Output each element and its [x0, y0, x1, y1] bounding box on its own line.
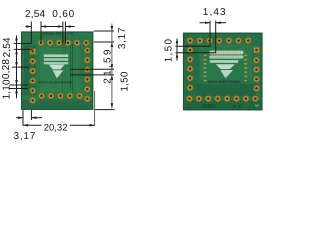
svg-text:2,54: 2,54 [2, 37, 13, 58]
smd footprint bars board A [44, 54, 68, 64]
dimension 20,32 bottom board A dimension line [23, 124, 95, 126]
smd pad columns fine pitch board B [204, 55, 248, 82]
arrowheads 2,54 and 0,60 top board A [26, 25, 70, 28]
logo watermark board A [39, 65, 73, 85]
dimension 21,59 bottom extension line board A [95, 109, 115, 111]
svg-text:ROTH ELEKTRONIK: ROTH ELEKTRONIK [208, 80, 242, 84]
svg-text:ROHS: ROHS [203, 103, 216, 108]
dimension 0,60 top board A extension lines [63, 22, 66, 44]
svg-text:20,32: 20,32 [44, 123, 68, 134]
dimension 3,17 bottom board A extension lines [16, 110, 42, 126]
pad column right board A [84, 47, 90, 102]
svg-text:0,28: 0,28 [1, 59, 12, 80]
pad row top board A [38, 40, 89, 46]
dimension line 1,43 top board B [200, 22, 227, 24]
logo watermark board B [208, 64, 242, 84]
svg-text:3,17: 3,17 [13, 131, 36, 142]
svg-text:Vi N: Vi N [233, 104, 242, 108]
pad column right board B, pin 1 square pad [254, 47, 260, 91]
dimension lines 2,54 and 0,60 top board A [26, 26, 75, 28]
pad column left board B [187, 47, 193, 91]
pad row top board B [187, 38, 251, 44]
dimension chain left side board A extension lines [10, 36, 33, 99]
arrowheads board B dimensions [176, 21, 221, 57]
svg-text:ROTH ELEKTRONIK: ROTH ELEKTRONIK [39, 81, 73, 85]
dimension line vertical right side board A [111, 24, 113, 109]
arrowheads right side board A [111, 26, 114, 108]
silkscreen label RE935-05E board A [44, 32, 75, 36]
wire trace pair board A center [63, 44, 73, 95]
svg-text:RE935-05E: RE935-05E [44, 32, 63, 36]
pad row bottom board B [187, 96, 259, 102]
dimension 2,54 top board A extension lines [14, 22, 41, 44]
dimension 1,43 top board B extension lines [176, 21, 216, 53]
dimension 3,17 right side board A extension lines [94, 31, 114, 42]
pad row bottom board A [39, 93, 83, 99]
svg-text:2,54: 2,54 [25, 9, 46, 20]
dimension line 1,50 left board B [176, 39, 178, 61]
svg-text:1,43: 1,43 [203, 7, 227, 18]
arrowheads bottom board A [18, 116, 95, 126]
svg-text:3,17: 3,17 [117, 27, 128, 49]
arrowheads left side chain board A [15, 39, 18, 94]
svg-text:1,50: 1,50 [163, 38, 174, 63]
svg-text:1,10: 1,10 [2, 79, 13, 100]
svg-text:0,60: 0,60 [52, 9, 75, 20]
svg-text:1,50: 1,50 [120, 71, 131, 92]
smd footprint striped bars board B [209, 51, 243, 63]
extension line right bottom board A [94, 91, 96, 126]
svg-text:21,59: 21,59 [103, 47, 114, 84]
board B (back side, solder view) [183, 33, 263, 111]
board A (front side, component view) [21, 32, 93, 110]
dimension 1,50 right side board A extension lines [71, 69, 115, 75]
silkscreen label ROHS board B [203, 103, 260, 108]
pad column left board A, pin 1 square pad [30, 49, 36, 104]
